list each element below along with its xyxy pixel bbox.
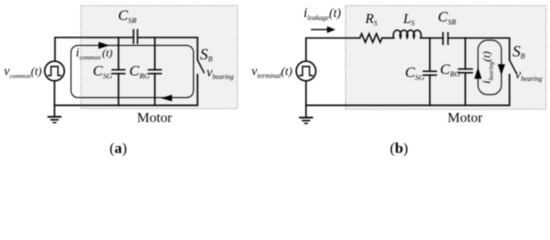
svg-text:(b): (b) — [390, 141, 408, 157]
svg-text:vcommon(t): vcommon(t) — [4, 64, 42, 80]
svg-text:ileakage(t): ileakage(t) — [304, 6, 341, 22]
svg-text:Motor: Motor — [137, 111, 172, 126]
svg-text:vterminal(t): vterminal(t) — [252, 63, 293, 80]
svg-text:Motor: Motor — [448, 111, 483, 126]
svg-text:(a): (a) — [110, 141, 128, 157]
